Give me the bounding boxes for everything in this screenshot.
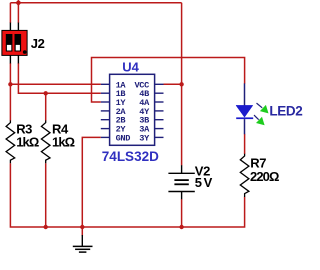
svg-text:U4: U4 xyxy=(122,59,139,74)
resistor R7 xyxy=(240,154,249,197)
wire bottom ground bus xyxy=(10,163,244,227)
svg-text:LED2: LED2 xyxy=(269,104,302,119)
junction node A xyxy=(8,82,12,86)
LED2 light arrow 2 xyxy=(254,115,265,125)
pin 4Y U4 right xyxy=(155,110,164,112)
pin 2Y U4 left xyxy=(101,128,110,130)
pin VCC U4 right xyxy=(155,83,164,85)
svg-text:J2: J2 xyxy=(31,36,45,51)
pin 4B U4 right xyxy=(155,92,164,94)
pin 3A U4 right xyxy=(155,128,164,130)
wire node A to gate input 1A xyxy=(10,83,100,85)
LED2 light arrow 1 xyxy=(257,103,269,113)
resistor R3 xyxy=(6,120,15,163)
junction battery ground xyxy=(179,225,183,229)
pin 2A U4 left xyxy=(101,110,110,112)
wire ground stub xyxy=(81,227,83,236)
svg-text:74LS32D: 74LS32D xyxy=(102,149,159,164)
wire battery minus to ground bus xyxy=(181,199,183,227)
ground xyxy=(73,235,93,252)
op IC U4 body 74LS32D xyxy=(110,74,155,145)
wire J2 pin2 up to rail xyxy=(17,3,19,23)
battery V2 xyxy=(168,165,194,199)
pin 1B U4 left xyxy=(101,92,110,94)
wire J2 pin3 down to R3 / 1A xyxy=(9,63,11,121)
resistor R4 xyxy=(41,120,50,163)
pin 1 J2 top xyxy=(9,23,11,31)
junction top rail xyxy=(15,0,21,6)
wire VCC pin to battery column xyxy=(164,83,182,85)
wire top +5V rail from J2 to battery column xyxy=(10,2,181,4)
pin 2 J2 top xyxy=(17,23,19,31)
svg-text:1kΩ: 1kΩ xyxy=(16,135,39,150)
svg-text:GND: GND xyxy=(116,133,131,143)
wire battery column (rail down to V2 +) xyxy=(181,3,183,166)
pin 3B U4 right xyxy=(155,119,164,121)
LED LED2 xyxy=(236,83,253,134)
connector J2 body xyxy=(2,30,27,55)
junction R4 ground xyxy=(44,225,48,229)
pin 1Y U4 left xyxy=(101,101,110,103)
wire J2 pin1 up to rail xyxy=(9,3,11,23)
wire J2 pin4 down then right to gate input 1B xyxy=(18,63,100,93)
wire GND pin to ground column xyxy=(82,137,101,227)
junction ground symbol node xyxy=(80,225,84,229)
pin 4A U4 right xyxy=(155,101,164,103)
wire gate output 1Y up and over to LED2 xyxy=(92,58,245,103)
pin 1A U4 left xyxy=(101,83,110,85)
pin 3Y U4 right xyxy=(155,136,164,138)
junction node B xyxy=(44,91,48,95)
junction VCC node xyxy=(179,82,183,86)
wire R4 bottom to ground bus xyxy=(45,163,47,227)
svg-text:1kΩ: 1kΩ xyxy=(52,135,75,150)
svg-text:3Y: 3Y xyxy=(139,133,150,143)
wire LED2 cathode to R7 xyxy=(244,134,246,154)
svg-text:5 V: 5 V xyxy=(195,175,213,190)
pin 3 J2 bottom xyxy=(9,55,11,63)
pin 2B U4 left xyxy=(101,119,110,121)
wire node B down to R4 xyxy=(45,93,47,120)
svg-text:220Ω: 220Ω xyxy=(250,169,279,184)
pin GND U4 left xyxy=(101,136,110,138)
pin 4 J2 bottom xyxy=(17,55,19,63)
